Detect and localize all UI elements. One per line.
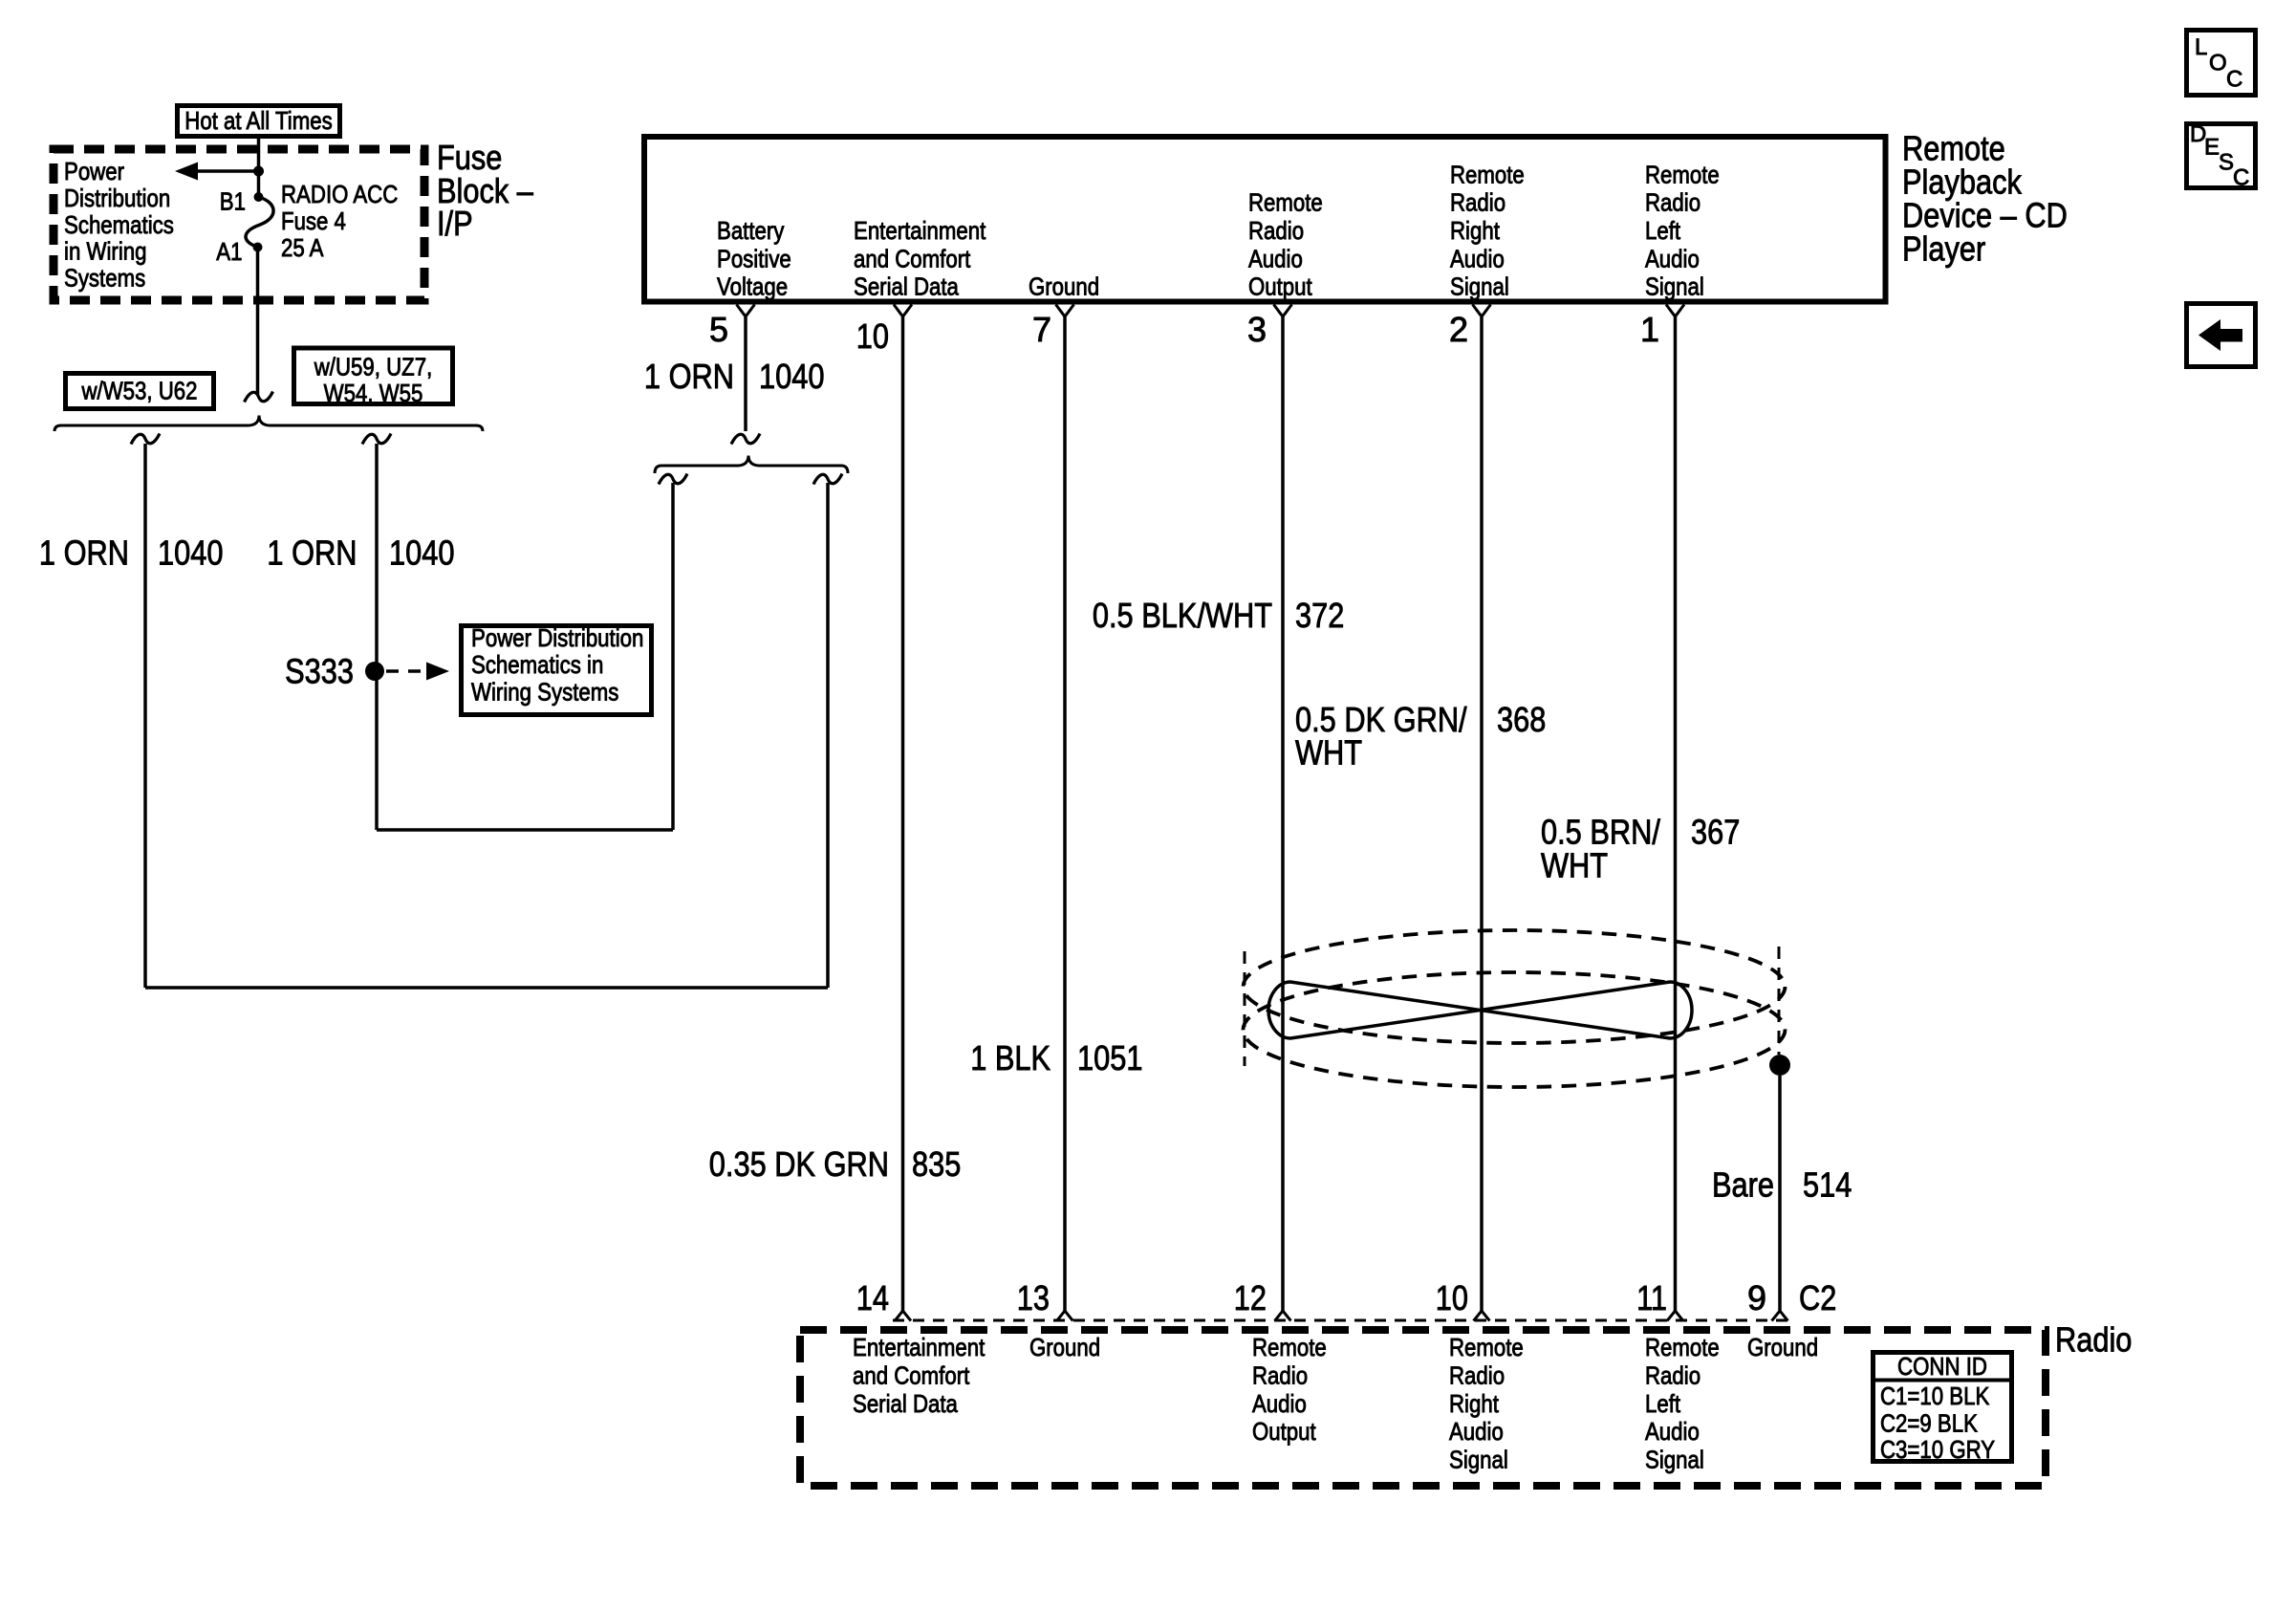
fuse element F4 <box>246 197 273 248</box>
harness brace pin5 <box>655 456 848 474</box>
svg-text:Audio: Audio <box>1645 244 1700 272</box>
svg-text:E: E <box>2204 135 2220 161</box>
radio pin name: Remote Radio Left Audio Signal <box>1645 1333 1720 1473</box>
wire pin7 <box>1063 316 1067 1311</box>
pin 2 connector <box>1473 305 1491 317</box>
twisted pair bowtie <box>1268 982 1692 1038</box>
svg-text:Output: Output <box>1252 1417 1316 1446</box>
svg-text:Serial Data: Serial Data <box>853 1389 958 1418</box>
splice S333 dot <box>365 662 384 681</box>
svg-text:1 ORN: 1 ORN <box>267 533 357 573</box>
pin 10 connector (radio) <box>1474 1311 1490 1321</box>
label 1 ORN 1040 (pin5) <box>644 357 825 396</box>
svg-text:1: 1 <box>1640 310 1659 349</box>
svg-text:O: O <box>2209 51 2227 76</box>
svg-text:Bare: Bare <box>1712 1165 1774 1205</box>
harness break tilde on fuse wire <box>245 392 273 403</box>
svg-text:L: L <box>2195 34 2207 60</box>
svg-text:S333: S333 <box>285 652 354 691</box>
shield drain dot <box>1769 1055 1790 1076</box>
svg-text:I/P: I/P <box>437 204 473 243</box>
bare drain wire <box>1778 1076 1782 1311</box>
Power Distribution note text <box>64 157 174 293</box>
svg-text:Radio: Radio <box>1450 188 1505 217</box>
svg-text:Remote: Remote <box>1645 160 1720 188</box>
CD box pin name: Remote Radio Right Audio Signal <box>1450 160 1525 300</box>
junction dot <box>253 166 264 177</box>
svg-text:9: 9 <box>1747 1278 1766 1317</box>
tilde above right branch wire <box>362 434 391 445</box>
svg-text:Schematics: Schematics <box>64 210 174 239</box>
svg-text:Ground: Ground <box>1029 1333 1100 1361</box>
svg-text:7: 7 <box>1032 310 1051 349</box>
svg-text:C2: C2 <box>1799 1278 1836 1317</box>
shield lower dashed ellipse <box>1244 972 1786 1087</box>
pin 1 connector <box>1666 305 1684 317</box>
svg-text:Player: Player <box>1902 229 1985 268</box>
wire S333 to pin5 branch: down and right then up <box>377 483 673 830</box>
svg-text:Entertainment: Entertainment <box>853 1333 986 1361</box>
DESC nav box <box>2187 121 2256 191</box>
wire w/W53 branch <box>143 444 147 988</box>
svg-text:w/W53, U62: w/W53, U62 <box>81 377 198 405</box>
label Bare 514 <box>1712 1165 1852 1205</box>
svg-text:10: 10 <box>856 316 889 356</box>
svg-text:Signal: Signal <box>1645 272 1704 301</box>
Fuse Block title <box>437 138 533 243</box>
svg-text:372: 372 <box>1295 596 1344 635</box>
pin 3 connector <box>1274 305 1292 317</box>
fuse terminal A1 dot <box>253 243 263 252</box>
svg-text:Fuse 4: Fuse 4 <box>281 207 346 235</box>
pin 14 connector <box>895 1311 911 1321</box>
CD box pin name: Remote Radio Audio Output <box>1248 188 1323 301</box>
radio pin name: Entertainment and Comfort Serial Data <box>853 1333 986 1418</box>
svg-text:13: 13 <box>1017 1278 1050 1317</box>
svg-text:Remote: Remote <box>1252 1333 1327 1361</box>
svg-text:Remote: Remote <box>1645 1333 1720 1361</box>
svg-text:Audio: Audio <box>1450 244 1505 272</box>
Fuse Block dashed box <box>54 149 424 300</box>
svg-text:Schematics in: Schematics in <box>471 650 603 679</box>
wire pin10 <box>901 316 905 1311</box>
label 1 ORN 1040 (second) <box>267 533 454 573</box>
svg-text:Radio: Radio <box>1252 1361 1308 1390</box>
pin 13 connector <box>1057 1311 1073 1321</box>
svg-text:S: S <box>2219 150 2234 176</box>
wire right branch down to long run <box>145 483 828 988</box>
tilde above left branch wire <box>131 434 160 445</box>
svg-text:Battery: Battery <box>717 216 784 245</box>
svg-text:Radio: Radio <box>1645 188 1700 217</box>
svg-text:Radio: Radio <box>1449 1361 1505 1390</box>
label 0.5 DK GRN/WHT 368 <box>1295 700 1546 773</box>
Radio dashed box <box>800 1330 2046 1486</box>
svg-text:12: 12 <box>1234 1278 1267 1317</box>
svg-text:1040: 1040 <box>389 533 455 573</box>
shield cylinder right side (dashed) <box>1778 947 1781 1055</box>
pin 9 connector <box>1772 1311 1788 1321</box>
radio connector dashed line <box>893 1319 1788 1322</box>
shield cylinder left side (dashed) <box>1244 951 1246 1066</box>
svg-text:WHT: WHT <box>1295 733 1362 773</box>
svg-text:C3=10 GRY: C3=10 GRY <box>1880 1435 1995 1464</box>
CD player box <box>644 137 1886 302</box>
CD box pin name: Remote Radio Left Audio Signal <box>1645 160 1720 300</box>
svg-text:Ground: Ground <box>1029 272 1099 301</box>
tilde at pin5 wire end <box>731 434 760 445</box>
wire pin2 <box>1480 316 1484 1311</box>
svg-text:11: 11 <box>1636 1278 1667 1317</box>
svg-text:514: 514 <box>1803 1165 1852 1205</box>
wire below fuse <box>256 248 260 396</box>
svg-text:Left: Left <box>1645 1389 1681 1418</box>
tilde above sub-branch right <box>813 474 842 485</box>
fuse labels <box>281 180 398 262</box>
arrow to power distribution schematics <box>175 163 259 181</box>
svg-text:Systems: Systems <box>64 264 145 293</box>
svg-text:A1: A1 <box>216 237 242 266</box>
svg-text:Radio: Radio <box>1645 1361 1700 1390</box>
svg-text:Audio: Audio <box>1248 244 1303 272</box>
svg-text:2: 2 <box>1449 310 1468 349</box>
pin 5 connector <box>737 305 755 317</box>
radio pin name: Remote Radio Right Audio Signal <box>1449 1333 1524 1473</box>
svg-text:10: 10 <box>1436 1278 1468 1317</box>
label 1 BLK 1051 <box>970 1038 1142 1078</box>
harness brace left <box>54 416 483 432</box>
svg-text:Radio: Radio <box>2055 1319 2132 1359</box>
svg-text:WHT: WHT <box>1541 845 1608 884</box>
svg-text:Remote: Remote <box>1449 1333 1524 1361</box>
dashed arrow from S333 <box>386 663 449 681</box>
svg-text:Power Distribution: Power Distribution <box>471 623 643 652</box>
svg-text:Signal: Signal <box>1449 1445 1508 1473</box>
svg-text:Right: Right <box>1450 216 1501 245</box>
Hot at All Times box <box>178 106 340 137</box>
svg-text:Entertainment: Entertainment <box>854 216 986 245</box>
wire w/U59 branch <box>375 444 379 830</box>
label 1 ORN 1040 (left) <box>39 533 224 573</box>
CD player title <box>1902 128 2068 268</box>
svg-text:0.5 BLK/WHT: 0.5 BLK/WHT <box>1093 596 1272 635</box>
tilde above sub-branch left <box>659 474 687 485</box>
svg-text:Signal: Signal <box>1645 1445 1704 1473</box>
svg-text:Voltage: Voltage <box>717 272 788 301</box>
svg-text:Signal: Signal <box>1450 272 1509 301</box>
svg-text:Ground: Ground <box>1747 1333 1818 1361</box>
radio pin name: Remote Radio Audio Output <box>1252 1333 1327 1446</box>
svg-text:368: 368 <box>1497 700 1546 739</box>
svg-text:25 A: 25 A <box>281 233 324 262</box>
svg-text:Right: Right <box>1449 1389 1500 1418</box>
svg-text:W54, W55: W54, W55 <box>324 379 423 407</box>
svg-text:C2=9 BLK: C2=9 BLK <box>1880 1408 1978 1437</box>
svg-text:RADIO ACC: RADIO ACC <box>281 180 398 208</box>
wire from Hot at All Times to fuse <box>257 139 261 197</box>
wire pin5 <box>744 316 747 431</box>
svg-text:C: C <box>2226 67 2242 93</box>
svg-text:Wiring Systems: Wiring Systems <box>471 677 618 706</box>
label 0.5 BLK/WHT 372 <box>1093 596 1344 635</box>
svg-text:1 BLK: 1 BLK <box>970 1038 1051 1078</box>
svg-text:C1=10 BLK: C1=10 BLK <box>1880 1382 1990 1410</box>
svg-text:3: 3 <box>1247 310 1267 349</box>
svg-text:and Comfort: and Comfort <box>854 244 971 272</box>
shield upper dashed ellipse <box>1244 930 1786 1043</box>
svg-text:1 ORN: 1 ORN <box>644 357 734 396</box>
svg-text:835: 835 <box>912 1144 961 1184</box>
svg-text:Power: Power <box>64 157 124 185</box>
svg-text:Audio: Audio <box>1449 1417 1504 1446</box>
back arrow nav box <box>2187 304 2256 367</box>
pin 12 connector <box>1275 1311 1291 1321</box>
svg-text:Audio: Audio <box>1645 1417 1700 1446</box>
svg-text:Remote: Remote <box>1248 188 1323 217</box>
CD box pin name: Battery Positive Voltage <box>717 216 791 301</box>
svg-text:Distribution: Distribution <box>64 184 170 212</box>
CD box pin name: Entertainment and Comfort Serial Data <box>854 216 986 301</box>
svg-text:B1: B1 <box>220 187 246 216</box>
svg-text:Audio: Audio <box>1252 1389 1307 1418</box>
svg-text:C: C <box>2233 165 2249 191</box>
svg-text:5: 5 <box>709 310 728 349</box>
svg-text:CONN ID: CONN ID <box>1897 1352 1987 1381</box>
option box w/U59, UZ7, W54, W55 <box>294 348 453 407</box>
svg-text:0.35 DK GRN: 0.35 DK GRN <box>709 1144 889 1184</box>
svg-text:Positive: Positive <box>717 244 791 272</box>
fuse terminal B1 dot <box>254 192 264 202</box>
svg-text:14: 14 <box>856 1278 889 1317</box>
svg-text:1051: 1051 <box>1077 1038 1143 1078</box>
svg-text:Remote: Remote <box>1450 160 1525 188</box>
LOC nav box <box>2187 31 2256 96</box>
svg-text:w/U59, UZ7,: w/U59, UZ7, <box>314 353 432 381</box>
CONN ID table <box>1871 1352 2014 1464</box>
wire pin3 <box>1281 316 1285 1311</box>
svg-text:1 ORN: 1 ORN <box>39 533 129 573</box>
svg-text:in Wiring: in Wiring <box>64 237 147 266</box>
svg-text:1040: 1040 <box>158 533 224 573</box>
pin 10 connector <box>894 305 912 317</box>
svg-text:367: 367 <box>1691 812 1740 851</box>
pin 11 connector <box>1667 1311 1683 1321</box>
svg-text:1040: 1040 <box>759 357 825 396</box>
label 0.35 DK GRN 835 <box>709 1144 961 1184</box>
pin 7 connector <box>1056 305 1074 317</box>
svg-text:and Comfort: and Comfort <box>853 1361 970 1390</box>
Power Distribution Schematics reference box <box>462 623 652 715</box>
label 0.5 BRN/WHT 367 <box>1541 812 1740 884</box>
svg-text:Hot at All Times: Hot at All Times <box>184 106 332 135</box>
svg-text:Radio: Radio <box>1248 216 1304 245</box>
wire pin1 <box>1674 316 1678 1311</box>
option box w/W53, U62 <box>66 374 214 409</box>
svg-text:Output: Output <box>1248 272 1312 301</box>
svg-text:Left: Left <box>1645 216 1681 245</box>
svg-text:Serial Data: Serial Data <box>854 272 959 301</box>
